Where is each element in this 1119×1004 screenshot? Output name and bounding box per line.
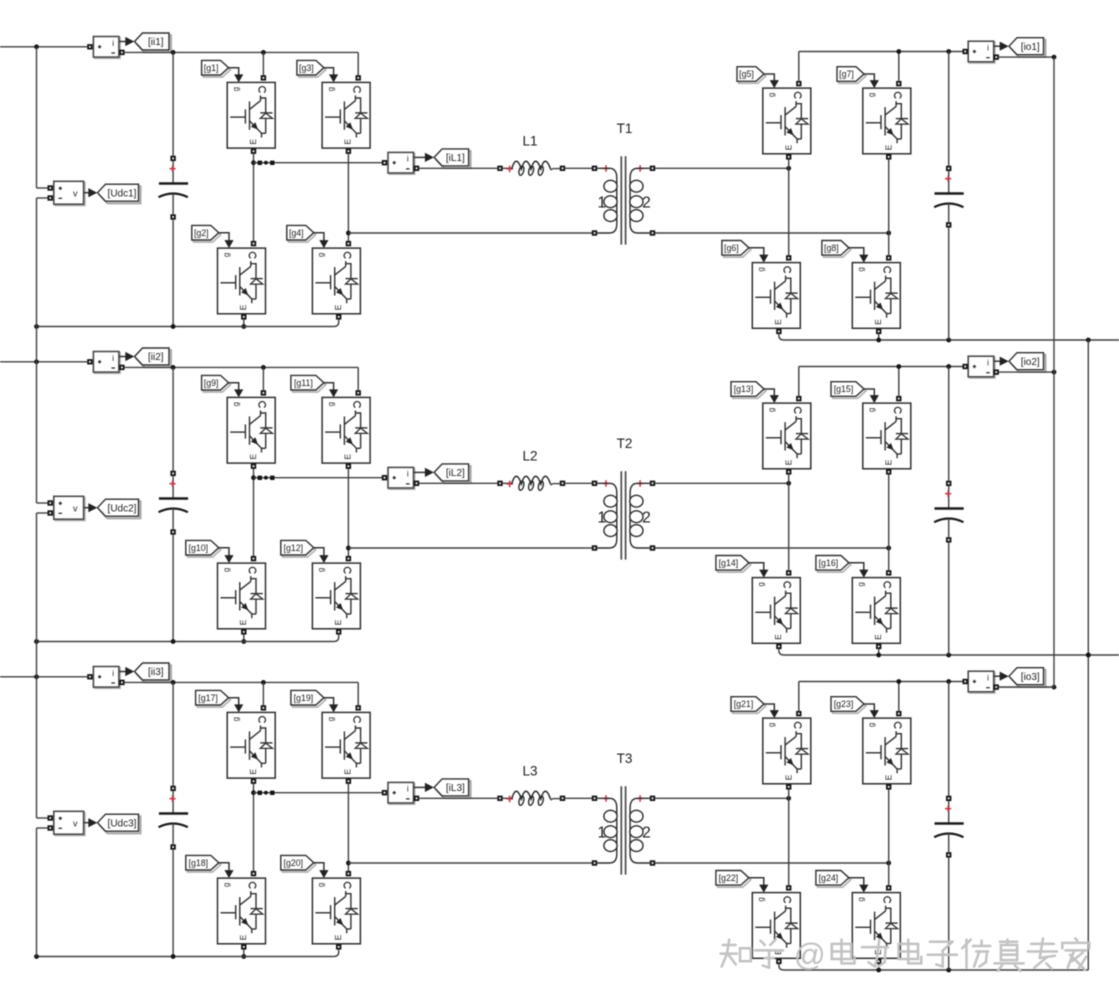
svg-text:[g12]: [g12] bbox=[284, 543, 304, 553]
svg-text:[g1]: [g1] bbox=[204, 63, 219, 73]
svg-text:[g13]: [g13] bbox=[734, 384, 754, 394]
svg-text:g: g bbox=[317, 883, 326, 887]
svg-text:[Udc1]: [Udc1] bbox=[108, 188, 137, 199]
svg-text:1: 1 bbox=[597, 510, 606, 527]
svg-text:[Udc3]: [Udc3] bbox=[108, 818, 137, 829]
svg-text:i: i bbox=[987, 44, 989, 53]
svg-text:g: g bbox=[757, 582, 766, 586]
svg-text:i: i bbox=[112, 354, 114, 363]
svg-text:E: E bbox=[873, 319, 883, 325]
svg-text:E: E bbox=[883, 774, 893, 780]
svg-text:g: g bbox=[757, 267, 766, 271]
svg-text:g: g bbox=[757, 897, 766, 901]
svg-text:1: 1 bbox=[597, 195, 606, 212]
svg-text:E: E bbox=[333, 934, 343, 940]
svg-text:1: 1 bbox=[597, 825, 606, 842]
svg-text:[iL2]: [iL2] bbox=[446, 468, 465, 479]
svg-text:[g5]: [g5] bbox=[739, 69, 754, 79]
svg-text:[g20]: [g20] bbox=[284, 858, 304, 868]
svg-text:[io3]: [io3] bbox=[1021, 672, 1040, 683]
svg-text:[g15]: [g15] bbox=[834, 384, 854, 394]
svg-text:E: E bbox=[333, 304, 343, 310]
svg-text:v: v bbox=[73, 189, 78, 199]
svg-text:i: i bbox=[407, 470, 409, 479]
svg-text:g: g bbox=[232, 717, 241, 721]
svg-text:g: g bbox=[317, 253, 326, 257]
svg-text:[g24]: [g24] bbox=[819, 873, 839, 883]
svg-text:E: E bbox=[883, 144, 893, 150]
svg-text:E: E bbox=[248, 454, 258, 460]
svg-text:E: E bbox=[773, 319, 783, 325]
svg-text:[g9]: [g9] bbox=[204, 378, 219, 388]
svg-text:2: 2 bbox=[642, 510, 651, 527]
svg-text:L3: L3 bbox=[522, 764, 537, 779]
svg-text:E: E bbox=[883, 459, 893, 465]
svg-text:E: E bbox=[248, 769, 258, 775]
svg-text:[io2]: [io2] bbox=[1021, 357, 1040, 368]
svg-text:g: g bbox=[326, 402, 335, 406]
svg-text:g: g bbox=[767, 723, 776, 727]
svg-text:[g18]: [g18] bbox=[189, 858, 209, 868]
svg-text:g: g bbox=[232, 402, 241, 406]
svg-text:g: g bbox=[857, 267, 866, 271]
svg-text:[g3]: [g3] bbox=[299, 63, 314, 73]
svg-text:L2: L2 bbox=[522, 449, 537, 464]
svg-text:i: i bbox=[407, 785, 409, 794]
svg-text:g: g bbox=[222, 883, 231, 887]
svg-text:[g2]: [g2] bbox=[194, 228, 209, 238]
svg-text:L1: L1 bbox=[522, 134, 537, 149]
svg-text:E: E bbox=[783, 144, 793, 150]
svg-text:g: g bbox=[867, 408, 876, 412]
svg-text:[g11]: [g11] bbox=[294, 378, 313, 388]
svg-text:T2: T2 bbox=[617, 436, 633, 451]
svg-text:E: E bbox=[238, 934, 248, 940]
svg-text:i: i bbox=[112, 39, 114, 48]
svg-text:E: E bbox=[783, 459, 793, 465]
svg-text:g: g bbox=[232, 87, 241, 91]
svg-text:v: v bbox=[73, 819, 78, 829]
svg-text:[io1]: [io1] bbox=[1021, 42, 1040, 53]
svg-text:[g4]: [g4] bbox=[289, 228, 304, 238]
svg-text:g: g bbox=[867, 93, 876, 97]
svg-text:[g16]: [g16] bbox=[819, 558, 839, 568]
svg-text:g: g bbox=[867, 723, 876, 727]
svg-text:E: E bbox=[783, 774, 793, 780]
svg-text:T1: T1 bbox=[617, 121, 633, 136]
svg-text:[Udc2]: [Udc2] bbox=[108, 503, 137, 514]
svg-text:[iL3]: [iL3] bbox=[446, 783, 465, 794]
svg-text:g: g bbox=[317, 568, 326, 572]
svg-text:g: g bbox=[222, 568, 231, 572]
svg-text:g: g bbox=[767, 93, 776, 97]
svg-text:E: E bbox=[238, 304, 248, 310]
svg-text:2: 2 bbox=[642, 825, 651, 842]
svg-text:v: v bbox=[73, 504, 78, 514]
svg-text:[g17]: [g17] bbox=[198, 693, 218, 703]
svg-text:[ii1]: [ii1] bbox=[148, 37, 164, 48]
svg-text:E: E bbox=[343, 769, 353, 775]
svg-text:[ii3]: [ii3] bbox=[148, 667, 164, 678]
svg-text:[g21]: [g21] bbox=[734, 699, 754, 709]
svg-text:i: i bbox=[987, 359, 989, 368]
svg-text:[g10]: [g10] bbox=[189, 543, 209, 553]
svg-text:i: i bbox=[987, 674, 989, 683]
svg-text:2: 2 bbox=[642, 195, 651, 212]
svg-text:i: i bbox=[407, 155, 409, 164]
svg-text:g: g bbox=[857, 582, 866, 586]
svg-text:[g14]: [g14] bbox=[719, 558, 739, 568]
svg-text:E: E bbox=[238, 619, 248, 625]
svg-text:[iL1]: [iL1] bbox=[446, 153, 465, 164]
svg-text:E: E bbox=[873, 634, 883, 640]
svg-text:g: g bbox=[857, 897, 866, 901]
svg-text:[g19]: [g19] bbox=[294, 693, 314, 703]
svg-text:[g7]: [g7] bbox=[839, 69, 854, 79]
svg-text:g: g bbox=[222, 253, 231, 257]
svg-text:T3: T3 bbox=[617, 751, 633, 766]
svg-text:[g8]: [g8] bbox=[824, 243, 839, 253]
svg-text:E: E bbox=[773, 634, 783, 640]
svg-text:[g23]: [g23] bbox=[834, 699, 854, 709]
svg-text:E: E bbox=[333, 619, 343, 625]
svg-text:g: g bbox=[326, 717, 335, 721]
svg-text:E: E bbox=[343, 139, 353, 145]
svg-text:[g6]: [g6] bbox=[724, 243, 739, 253]
svg-text:E: E bbox=[248, 139, 258, 145]
svg-text:[ii2]: [ii2] bbox=[148, 352, 164, 363]
svg-text:i: i bbox=[112, 669, 114, 678]
svg-text:@: @ bbox=[794, 937, 826, 973]
svg-text:g: g bbox=[767, 408, 776, 412]
svg-text:[g22]: [g22] bbox=[719, 873, 739, 883]
svg-text:g: g bbox=[326, 87, 335, 91]
svg-text:E: E bbox=[343, 454, 353, 460]
